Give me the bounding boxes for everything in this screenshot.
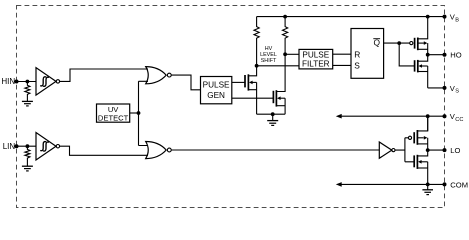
svg-text:B: B — [455, 18, 459, 24]
svg-text:S: S — [354, 61, 360, 71]
resistor (level-shift left) — [254, 17, 259, 66]
wire HIN lead — [17, 81, 37, 83]
transistor M2 (HV level-shift NMOS, lower) — [273, 54, 285, 114]
node level-shift ground junction — [271, 112, 275, 116]
wire pulse filter to R input — [333, 53, 351, 55]
wire COM rail with arrow — [336, 182, 445, 187]
node LO junction — [426, 148, 430, 152]
pin HIN — [1, 77, 18, 86]
pin VS — [443, 84, 460, 95]
svg-text:DETECT: DETECT — [98, 113, 129, 122]
node UV output junction — [137, 111, 141, 115]
ground (LIN resistor) — [22, 166, 33, 171]
wire LIN lead — [17, 145, 37, 147]
svg-text:LEVEL: LEVEL — [260, 52, 277, 58]
ground (HIN resistor) — [22, 101, 33, 106]
wire inverter output split — [395, 138, 414, 162]
NOR gate (high side) — [146, 67, 172, 84]
node VCC junction — [426, 114, 430, 118]
wire LIN schmitt output to NOR2 — [60, 146, 148, 155]
pin LIN — [3, 142, 19, 151]
node VB rail right-resistor junction — [283, 15, 287, 19]
svg-text:GEN: GEN — [207, 91, 225, 100]
UV DETECT block — [97, 104, 130, 122]
wire pulse filter to S input — [333, 64, 351, 66]
wire PULSE GEN bottom output — [232, 97, 274, 99]
svg-text:COM: COM — [450, 180, 468, 189]
transistor N2 (LO pull-down NMOS) — [414, 150, 428, 184]
svg-text:R: R — [354, 49, 360, 59]
inverter (LO driver) — [379, 142, 395, 158]
wire NOR1 output to PULSE GEN — [171, 75, 200, 90]
wire right drain to pulse filter — [285, 53, 299, 55]
wire Q-bar to N1 gate — [399, 43, 414, 66]
resistor HIN pull-down — [25, 82, 30, 102]
node COM junction — [426, 183, 430, 187]
svg-text:PULSE: PULSE — [302, 50, 329, 59]
resistor LIN pull-down — [25, 146, 30, 166]
wire UV DETECT output — [130, 112, 139, 114]
svg-text:S: S — [455, 89, 459, 95]
IC boundary dashed border — [17, 6, 445, 208]
ground (level shift) — [267, 114, 278, 125]
node HO junction — [426, 53, 430, 57]
wire VCC to P2 drain — [427, 116, 429, 131]
svg-text:HO: HO — [450, 51, 461, 60]
PULSE FILTER block — [299, 49, 333, 69]
transistor M1 (HV level-shift NMOS, upper) — [245, 66, 257, 114]
wire left drain to pulse filter — [257, 65, 299, 67]
svg-text:LIN: LIN — [3, 142, 16, 151]
pin HO — [443, 51, 462, 60]
wire NOR2 output to LO inverter (long) — [171, 149, 379, 151]
PULSE GEN block — [201, 77, 232, 104]
node VB rail P1 drain junction — [426, 15, 430, 19]
pin VB — [443, 13, 460, 24]
wire HO node to pin — [428, 54, 445, 56]
ground (COM) — [422, 184, 433, 194]
node Q-bar junction — [397, 41, 401, 45]
pin VCC — [443, 112, 464, 123]
wire VB top rail — [257, 16, 445, 18]
wire VS to pin — [428, 87, 445, 89]
svg-text:SHIFT: SHIFT — [261, 58, 277, 64]
node left level-shift drain junction — [255, 64, 259, 68]
pin LO — [443, 146, 461, 155]
node right level-shift drain junction — [283, 52, 287, 56]
svg-text:PULSE: PULSE — [203, 80, 230, 89]
NOR gate (low side) — [146, 142, 172, 159]
RS latch U1 — [351, 29, 384, 79]
wire PULSE GEN top output — [232, 81, 245, 83]
svg-text:HIN: HIN — [1, 77, 15, 86]
schmitt trigger inverter (LIN) — [36, 133, 60, 161]
svg-text:CC: CC — [455, 117, 463, 123]
svg-text:LO: LO — [450, 146, 460, 155]
wire UV vertical distribution — [139, 81, 149, 145]
svg-text:Q: Q — [374, 38, 381, 48]
transistor P2 (LO pull-up PMOS) — [408, 116, 427, 150]
node HIN junction — [26, 80, 30, 84]
wire HIN schmitt output to NOR1 — [60, 69, 148, 81]
wire level-shift source rail — [257, 113, 286, 115]
pin COM — [443, 180, 469, 189]
schmitt trigger inverter (HIN) — [36, 68, 60, 96]
transistor N1 (HO pull-down NMOS) — [415, 55, 428, 88]
wire VCC rail with arrow — [336, 114, 445, 119]
wire Q-bar output — [384, 42, 410, 44]
svg-text:FILTER: FILTER — [302, 60, 330, 69]
label HV LEVEL SHIFT — [260, 46, 277, 64]
node LIN junction — [26, 144, 30, 148]
wire LO node to pin — [428, 149, 445, 151]
resistor (level-shift right) — [283, 17, 288, 55]
transistor P1 (HO pull-up PMOS) — [410, 17, 428, 55]
